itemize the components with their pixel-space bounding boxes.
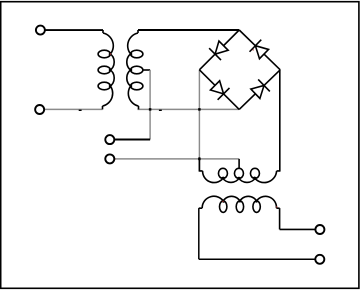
terminal P2 (primary bottom): [35, 105, 44, 114]
red artifact dot L2 right stub: [276, 206, 277, 207]
junction tick on primary-bottom wire: [79, 110, 82, 111]
bridge edge top-left: [199, 30, 239, 70]
terminal S2: [105, 154, 114, 163]
bridge edge top-right: [239, 30, 280, 70]
terminal output bottom: [315, 255, 324, 264]
junction dot left-node wire crosses secondary-bottom wire: [198, 108, 201, 111]
terminal P1 (primary top): [36, 26, 45, 35]
wire to terminal output top: [280, 228, 315, 230]
wire secondary-bottom to bridge bottom node: [138, 108, 240, 110]
bridge edge bottom-right: [239, 70, 280, 110]
wire primary-bottom: [45, 108, 103, 110]
wire bridge left node down to L1: [198, 70, 200, 157]
wire secondary-top to bridge: [138, 29, 239, 31]
terminal S1 (secondary tap out): [105, 135, 114, 144]
red artifact dot near diode D2 bar: [253, 49, 254, 50]
wire L1 center-tap drop: [238, 159, 240, 169]
wire secondary tap horizontal: [143, 69, 150, 71]
red artifact dot primary loop crossing: [110, 53, 111, 54]
terminal output top: [315, 225, 324, 234]
transformer T1 primary winding: [98, 30, 114, 109]
red artifact dot near terminal S2 wire: [114, 158, 115, 159]
junction dot tap-wire crosses secondary-bottom wire: [149, 108, 152, 111]
inductor L1 (center-tapped): [199, 168, 279, 182]
wire L1 left lead: [198, 157, 200, 171]
wire to terminal output bottom: [199, 258, 315, 260]
wire L2 right lead down: [279, 208, 281, 229]
inductor L2: [199, 196, 280, 212]
wire tap vertical drop: [149, 70, 151, 140]
wire primary-top: [45, 29, 103, 31]
junction tick on secondary-bottom wire: [159, 110, 162, 111]
diode D2: [250, 40, 269, 59]
bridge edge bottom-left: [199, 70, 239, 110]
wire bridge right node down to L1 right lead: [279, 70, 281, 172]
junction dot left-node wire crosses S2 wire: [198, 158, 201, 161]
diode D4: [251, 79, 270, 98]
transformer T1 secondary winding: [127, 30, 143, 109]
diode D1: [209, 41, 228, 60]
wire terminal S2 horizontal: [115, 158, 239, 160]
red artifact dot L2 loop crossing: [222, 201, 223, 202]
wire L2 left lead down: [198, 208, 200, 259]
wire to terminal S1: [115, 139, 150, 141]
diode D3: [210, 81, 229, 100]
